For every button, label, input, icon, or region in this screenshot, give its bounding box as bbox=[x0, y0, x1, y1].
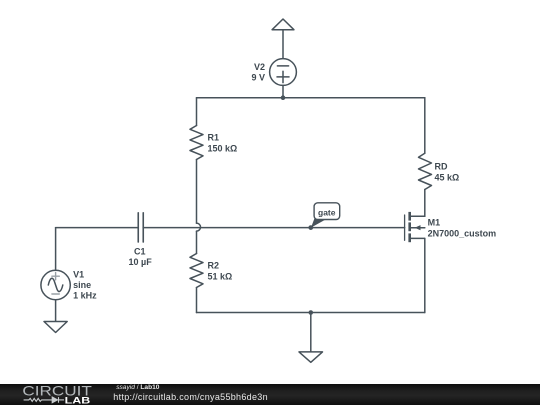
resistor RD bbox=[419, 153, 432, 189]
resistor R2 bbox=[190, 254, 203, 288]
resistor R1 bbox=[190, 126, 203, 160]
mosfet M1 bbox=[405, 212, 425, 242]
svg-text:150 kΩ: 150 kΩ bbox=[208, 144, 238, 154]
wire arrow to V2 bbox=[282, 30, 284, 59]
svg-text:R1: R1 bbox=[208, 133, 220, 143]
wire V1 to C1 bbox=[56, 227, 138, 229]
svg-text:sine: sine bbox=[73, 280, 91, 290]
svg-text:C1: C1 bbox=[134, 247, 146, 257]
ground symbol bottom bbox=[299, 352, 323, 362]
footer bar bbox=[0, 384, 540, 405]
wire V1 to ground bbox=[55, 300, 57, 322]
svg-text:9 V: 9 V bbox=[251, 73, 265, 83]
wire V1 up bbox=[55, 228, 57, 271]
node junction dot bottom bbox=[309, 310, 314, 315]
wire hop over gate wire bbox=[197, 223, 201, 231]
power flag arrow (V2 top) bbox=[272, 19, 294, 30]
svg-text:M1: M1 bbox=[428, 218, 441, 228]
wire top rail bbox=[197, 97, 425, 99]
voltage source V2 bbox=[270, 59, 297, 86]
svg-text:51 kΩ: 51 kΩ bbox=[208, 272, 233, 282]
ground symbol V1 bbox=[44, 322, 67, 333]
wire M1 source down bbox=[424, 238, 426, 312]
svg-text:V2: V2 bbox=[254, 62, 265, 72]
wire top rail to RD bbox=[424, 98, 426, 154]
capacitor C1 bbox=[138, 213, 143, 242]
wire ground stub bbox=[310, 313, 312, 352]
svg-text:V1: V1 bbox=[73, 270, 84, 280]
footer url line bbox=[113, 393, 268, 402]
svg-text:10 µF: 10 µF bbox=[129, 257, 153, 267]
wire R1 to hop bbox=[196, 160, 198, 224]
node junction dot top bbox=[281, 95, 286, 100]
svg-text:1 kHz: 1 kHz bbox=[73, 291, 97, 301]
svg-text:gate: gate bbox=[318, 208, 336, 218]
label V2 value bbox=[251, 62, 265, 83]
svg-text:LAB: LAB bbox=[65, 396, 91, 405]
net flag gate bbox=[308, 203, 339, 230]
svg-text:2N7000_custom: 2N7000_custom bbox=[428, 229, 497, 239]
svg-text:R2: R2 bbox=[208, 261, 220, 271]
voltage source V1 bbox=[41, 270, 70, 299]
circuitlab logo bbox=[0, 384, 110, 405]
wire bottom rail bbox=[197, 312, 425, 314]
wire V2 to top rail bbox=[282, 85, 284, 97]
wire gate horizontal bbox=[143, 227, 404, 229]
wire RD to drain bbox=[424, 190, 426, 217]
svg-text:RD: RD bbox=[435, 161, 448, 171]
wire top-left down to R1 bbox=[196, 98, 198, 126]
svg-text:45 kΩ: 45 kΩ bbox=[435, 173, 460, 183]
wire hop to R2 bbox=[196, 231, 198, 253]
wire R2 to bottom rail bbox=[196, 288, 198, 313]
footer credit line bbox=[116, 385, 159, 392]
